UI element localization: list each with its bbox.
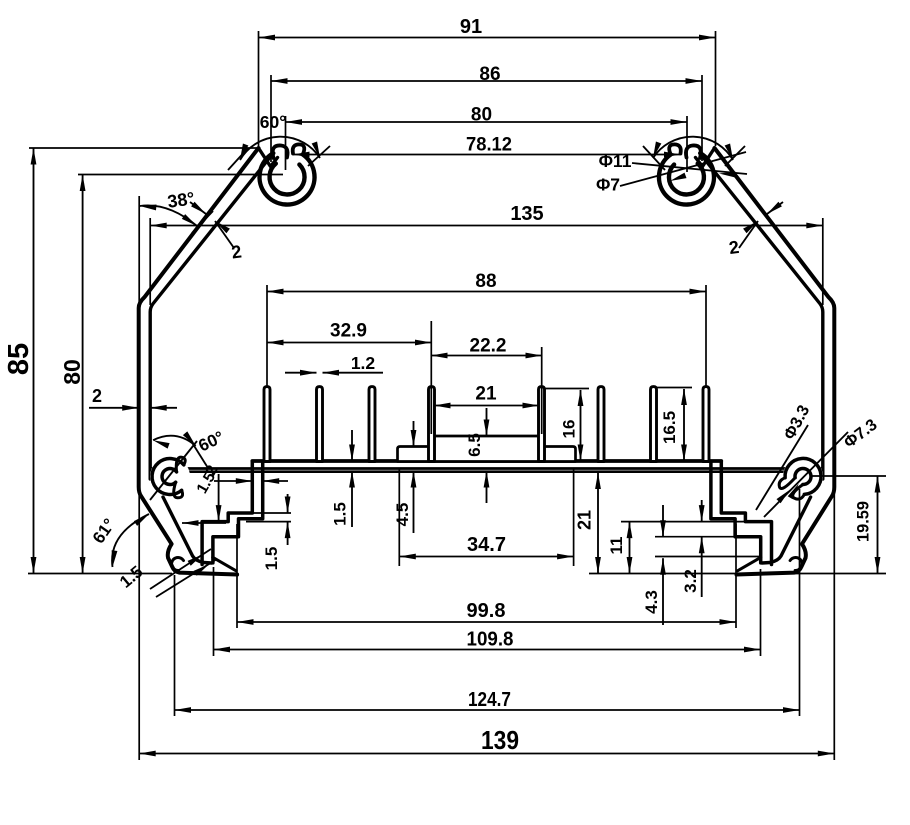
- svg-text:6.5: 6.5: [465, 433, 484, 457]
- svg-text:85: 85: [3, 343, 35, 375]
- svg-text:80: 80: [471, 105, 492, 126]
- svg-text:16: 16: [560, 420, 579, 439]
- svg-text:99.8: 99.8: [467, 600, 506, 622]
- svg-text:38°: 38°: [166, 188, 196, 212]
- svg-text:109.8: 109.8: [467, 629, 514, 651]
- svg-text:1.5: 1.5: [331, 502, 350, 526]
- svg-text:139: 139: [481, 725, 519, 755]
- svg-text:21: 21: [575, 510, 595, 530]
- svg-text:4.3: 4.3: [642, 590, 661, 614]
- svg-text:16.5: 16.5: [660, 411, 679, 444]
- svg-text:78.12: 78.12: [466, 135, 512, 156]
- svg-text:88: 88: [475, 271, 496, 292]
- svg-text:135: 135: [510, 203, 543, 225]
- svg-text:11: 11: [607, 537, 626, 555]
- svg-text:1.5: 1.5: [262, 547, 281, 571]
- svg-text:Φ7: Φ7: [596, 175, 620, 195]
- svg-text:19.59: 19.59: [854, 501, 873, 542]
- svg-text:22.2: 22.2: [470, 336, 507, 357]
- svg-text:2: 2: [92, 386, 102, 406]
- svg-text:80: 80: [59, 359, 85, 385]
- svg-text:91: 91: [460, 16, 482, 38]
- svg-text:3.2: 3.2: [681, 569, 700, 593]
- svg-text:32.9: 32.9: [330, 321, 367, 342]
- svg-text:21: 21: [475, 384, 497, 405]
- svg-text:4.5: 4.5: [393, 503, 412, 527]
- svg-text:1.2: 1.2: [351, 353, 376, 373]
- svg-text:Φ11: Φ11: [599, 151, 632, 171]
- svg-text:124.7: 124.7: [468, 689, 511, 711]
- svg-text:86: 86: [479, 64, 500, 85]
- svg-text:34.7: 34.7: [467, 534, 506, 556]
- svg-text:60°: 60°: [260, 112, 286, 132]
